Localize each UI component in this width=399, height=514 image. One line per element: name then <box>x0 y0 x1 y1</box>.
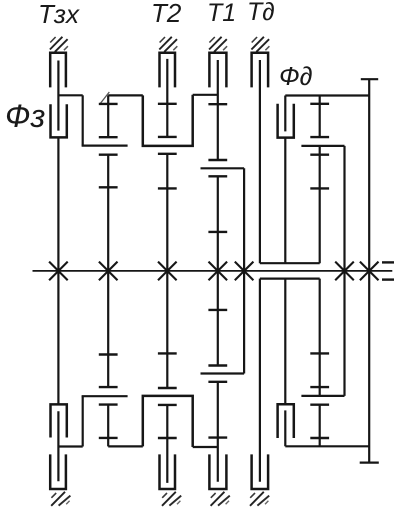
carrier plate P2 (bottom mirror) <box>201 372 245 374</box>
carrier plate P1 (top) <box>82 145 128 147</box>
gear tick R4 <box>310 187 329 189</box>
gear tick E5 (mirror) <box>158 352 177 354</box>
brake T1 housing (top bracket) <box>209 53 226 88</box>
gear tick R2 <box>310 136 329 138</box>
output drum J vertical <box>368 79 370 462</box>
label Tzx <box>38 1 79 27</box>
carrier plate P3 (bottom mirror) <box>301 395 344 397</box>
brake T2 housing (bottom bracket) <box>160 454 176 489</box>
bearing X on shaft A <box>49 262 68 281</box>
bearing X on shaft E <box>158 262 177 281</box>
ground hatching below brake Tzx (mirror) <box>51 492 70 506</box>
ring shaft R upper (top) <box>319 96 321 138</box>
brake Tzx housing (bottom bracket) <box>50 454 66 489</box>
ring link over gear C (top) <box>108 94 143 96</box>
brake Tzx housing (top bracket) <box>50 53 66 88</box>
brake Td housing (top bracket) <box>252 53 269 88</box>
gear shaft C upper mirror (bottom) <box>107 405 109 447</box>
gear tick G7 (mirror) <box>208 381 227 383</box>
shaft A middle (through bearing) <box>57 137 59 404</box>
gear tick G5 (mirror) <box>208 309 227 311</box>
gear tick G1 <box>208 103 227 105</box>
ground hatching below brake T1 (mirror) <box>211 492 230 506</box>
carrier plate P1 (bottom mirror) <box>82 395 128 397</box>
carrier plate P3 (top) <box>301 145 344 147</box>
output drum J bottom bar <box>360 462 379 464</box>
brake T2 housing (top bracket) <box>160 53 176 88</box>
freewheel Fd cup (bottom mirror) <box>278 404 294 438</box>
label Td <box>247 0 275 25</box>
ring gear cup D (top) <box>143 95 193 146</box>
freewheel Fd inner shaft (bottom mirror) <box>284 410 286 446</box>
gear tick C6 (mirror) <box>99 386 118 388</box>
output drum J top bar <box>361 78 378 80</box>
carrier plate P2 (top) <box>201 167 245 169</box>
gear tick E8 (mirror) <box>158 437 177 439</box>
label F3 <box>5 100 45 132</box>
label T2 <box>151 0 181 26</box>
brake Td housing (bottom bracket) <box>252 454 269 489</box>
gear tick G3 <box>208 175 227 177</box>
carrier link H vertical <box>243 168 245 373</box>
link H1 shaft A to drum B (top) <box>58 94 82 96</box>
link F cup D to shaft G (top) <box>193 94 218 96</box>
freewheel F3 cup (top) <box>51 104 67 137</box>
ground hatching below brake Td (mirror) <box>250 492 269 506</box>
shaft G bottom (brake T1 disc mirror) <box>217 382 219 482</box>
gear tick G6 (mirror) <box>208 364 227 366</box>
shaft below Fd cup (top) <box>284 138 286 264</box>
shaft E bottom (brake T2 disc mirror) <box>166 405 168 483</box>
shaft A bottom (brake Tzx disc mirror) <box>57 411 59 481</box>
label T1 <box>207 1 236 26</box>
gear tick R6 (mirror) <box>310 386 329 388</box>
output coupling upper tick <box>382 261 394 263</box>
gear tick C8 (mirror) <box>99 437 118 439</box>
gear tick C3 <box>99 153 118 155</box>
ring shaft R lower (bottom mirror) <box>319 279 321 396</box>
axis centerline <box>33 270 393 272</box>
gear tick E6 (mirror) <box>158 387 177 389</box>
gear tick R1 <box>310 103 329 105</box>
gear tick E1 <box>158 103 177 105</box>
input rail (bottom mirror) <box>285 445 369 447</box>
drum link B vertical (bottom) <box>82 396 84 446</box>
gear tick C5 (mirror) <box>99 353 118 355</box>
link F mirror (bottom) <box>193 446 218 448</box>
gear shaft C lower (through bearing) <box>107 155 109 387</box>
gear tick R7 (mirror) <box>310 404 329 406</box>
gear tick C7 (mirror) <box>99 403 118 405</box>
shaft above Fd cup (bottom mirror) <box>284 279 286 405</box>
ground hatching above brake T2 <box>159 37 177 52</box>
ground hatching above brake T1 <box>209 37 227 52</box>
gear tick R5 (mirror) <box>310 352 329 354</box>
gear tick E2 <box>158 136 177 138</box>
ring link under gear C (bottom) <box>108 445 143 447</box>
carrier link I vertical <box>343 146 345 396</box>
ring gear cup D (bottom mirror) <box>143 396 193 447</box>
input rail (top) <box>285 94 369 96</box>
gear tick C2 <box>99 136 118 138</box>
bearing X on shaft C <box>99 262 118 281</box>
label Fd <box>279 63 313 89</box>
ground hatching below brake T2 (mirror) <box>162 492 181 506</box>
gear tick C1 <box>99 103 118 105</box>
shaft Td (brake Td disc, top) <box>259 60 261 263</box>
gear tick E7 (mirror) <box>158 404 177 406</box>
drum bottom rail (mirror) <box>260 278 320 280</box>
gear tick G4 <box>208 231 227 233</box>
gear tick G8 (mirror) <box>208 436 227 438</box>
link H1 mirror (bottom) <box>58 445 82 447</box>
bearing X on link I <box>335 262 354 281</box>
bearing X on output J <box>360 262 379 281</box>
gear tick R8 (mirror) <box>310 437 329 439</box>
weld mark at ring link corner <box>100 92 109 104</box>
gear tick C4 <box>99 186 118 188</box>
brake T1 housing (bottom bracket) <box>209 454 226 489</box>
shaft Td mirror (bottom) <box>259 279 261 482</box>
bearing X on link H <box>235 262 254 281</box>
drum top rail (Td-Fd-ring link) <box>260 262 320 264</box>
ring shaft R upper (bottom mirror) <box>319 405 321 447</box>
freewheel Fd cup (top) <box>278 104 294 138</box>
gear tick G2 <box>208 159 227 161</box>
freewheel F3 cup (bottom mirror) <box>51 404 67 437</box>
shaft A top (brake Tzx disc) <box>57 61 59 131</box>
ring shaft R lower (top) <box>319 146 321 263</box>
shaft E middle (through bearing) <box>166 154 168 388</box>
output coupling lower tick <box>382 278 394 280</box>
freewheel Fd inner shaft (top) <box>284 96 286 132</box>
shaft G middle (through bearing) <box>217 176 219 365</box>
shaft G top (brake T1 disc) <box>217 60 219 160</box>
ground hatching above brake Tzx <box>50 37 68 52</box>
ground hatching above brake Td <box>251 37 269 52</box>
gear tick E4 <box>158 187 177 189</box>
gear tick E3 <box>158 153 177 155</box>
drum link B vertical (top) <box>82 95 84 145</box>
shaft E top (brake T2 disc) <box>166 59 168 137</box>
gear tick R3 <box>310 153 329 155</box>
bearing X on shaft G <box>209 262 228 281</box>
gear shaft C upper (top) <box>107 95 109 137</box>
